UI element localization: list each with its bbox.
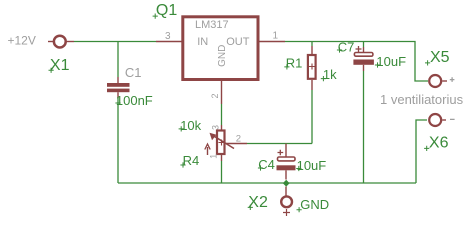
svg-text:X1: X1 (50, 57, 70, 74)
svg-text:Q1: Q1 (156, 2, 177, 19)
svg-text:GND: GND (217, 45, 228, 67)
svg-text:LM317: LM317 (195, 19, 229, 31)
svg-text:R4: R4 (183, 153, 200, 168)
svg-text:3: 3 (211, 125, 221, 130)
svg-text:OUT: OUT (226, 36, 250, 48)
svg-text:X6: X6 (429, 134, 449, 151)
svg-text:100nF: 100nF (116, 93, 153, 108)
svg-text:X2: X2 (248, 194, 268, 211)
svg-text:IN: IN (197, 36, 208, 48)
svg-text:1: 1 (208, 154, 218, 159)
svg-text:1 ventiliatorius: 1 ventiliatorius (380, 92, 464, 107)
svg-text:2: 2 (236, 133, 241, 144)
svg-text:X5: X5 (430, 49, 450, 66)
svg-text:1: 1 (273, 31, 279, 42)
svg-text:1k: 1k (323, 67, 337, 82)
svg-text:10uF: 10uF (376, 54, 406, 69)
svg-text:+12V: +12V (8, 33, 36, 47)
svg-text:10uF: 10uF (297, 158, 327, 173)
svg-text:2: 2 (210, 93, 220, 98)
svg-text:C7: C7 (338, 39, 355, 54)
svg-text:R1: R1 (286, 56, 303, 71)
svg-text:3: 3 (165, 31, 171, 42)
svg-text:10k: 10k (180, 118, 201, 133)
svg-text:GND: GND (300, 197, 329, 212)
svg-text:C1: C1 (125, 65, 142, 80)
